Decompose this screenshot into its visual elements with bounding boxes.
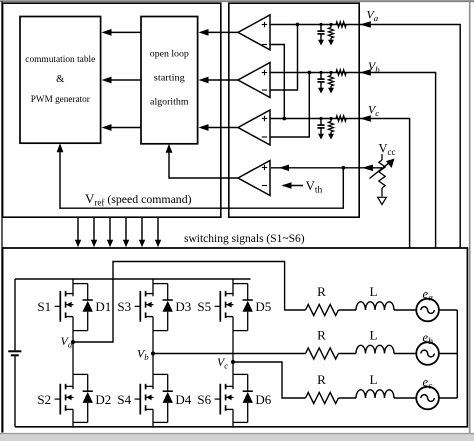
arrowhead Vb into comparator box <box>360 69 371 76</box>
wire Vb sense line <box>270 73 436 249</box>
capacitor C (phase a) <box>317 23 324 46</box>
node junction on Vb line <box>307 71 311 75</box>
label R (phase c) <box>317 372 326 387</box>
border frame bottom band <box>0 434 474 441</box>
label L (phase b) <box>370 327 378 342</box>
op-amp comparator U1 <box>238 15 270 50</box>
svg-text:D5: D5 <box>255 299 271 314</box>
wire L to source (phase a) <box>394 309 416 311</box>
inverter section box <box>3 248 468 433</box>
transistor S3 <box>135 279 154 354</box>
wire potentiometer wiper to U4 plus input <box>271 167 382 169</box>
wire L to source (phase c) <box>394 397 416 399</box>
diode D6 <box>233 374 253 422</box>
wire phase a to load <box>73 262 306 343</box>
border frame right <box>469 0 471 433</box>
svg-text:D3: D3 <box>175 299 191 314</box>
arrowhead Va into comparator box <box>360 21 371 28</box>
node junction on Va line <box>296 23 300 27</box>
label D2 <box>95 392 111 407</box>
diode D3 <box>153 284 173 331</box>
svg-text:R: R <box>317 284 326 299</box>
wire switching signal arrow 6 <box>155 217 161 247</box>
ground below potentiometer (open arrow) <box>378 197 387 204</box>
resistor R (phase c winding) <box>306 393 339 404</box>
arrowhead Vc into comparator box <box>360 115 371 122</box>
transistor S6 <box>215 362 234 427</box>
arrowhead wiper wire at box edge <box>362 165 373 172</box>
resistor R series (phase b) <box>336 70 346 76</box>
label Vth <box>306 178 323 196</box>
wire source to neutral (phase b) <box>439 353 457 355</box>
wire U3 minus to Vb line <box>270 73 309 138</box>
label D6 <box>255 392 271 407</box>
svg-text:L: L <box>370 284 378 299</box>
svg-text:S3: S3 <box>117 299 131 314</box>
svg-text:&: & <box>56 74 65 85</box>
svg-text:commutation table: commutation table <box>25 54 95 65</box>
svg-text:R: R <box>317 372 326 387</box>
resistor R shunt (phase c) <box>328 117 334 140</box>
border frame left <box>1 1 3 433</box>
svg-text:S6: S6 <box>197 392 211 407</box>
label S4 <box>117 392 131 407</box>
svg-text:algorithm: algorithm <box>150 96 189 107</box>
label & <box>56 74 65 85</box>
transistor S1 <box>55 279 74 342</box>
svg-text:R: R <box>317 327 326 342</box>
svg-text:switching signals (S1~S6): switching signals (S1~S6) <box>184 233 305 245</box>
wire open-loop to commutation 1 <box>102 29 142 36</box>
label Vc (top right) <box>368 103 379 119</box>
diode D5 <box>233 284 253 331</box>
control section box <box>3 3 221 217</box>
wire phase c to load <box>233 362 306 398</box>
label L (phase a) <box>370 284 378 299</box>
wire open-loop to commutation 2 <box>102 77 142 84</box>
label Va (top right) <box>367 8 379 24</box>
wire switching signal arrow 5 <box>139 217 145 247</box>
source eb back-EMF <box>416 342 439 365</box>
label Vb (top right) <box>368 59 380 75</box>
wire comparator 1 output to open-loop <box>199 29 239 36</box>
wire Vth input <box>283 185 303 187</box>
label Vcc <box>379 142 396 158</box>
diode D2 <box>73 374 93 422</box>
wire neutral bus <box>456 310 458 398</box>
label D5 <box>255 299 271 314</box>
label Va node <box>61 334 73 350</box>
wire U2 minus to Va line <box>270 25 298 91</box>
wire L to source (phase b) <box>394 353 416 355</box>
op-amp comparator U4 <box>238 161 270 196</box>
wire switching signal arrow 4 <box>123 217 129 247</box>
wire switching signal arrow 2 <box>91 217 97 247</box>
wire R to L (phase b) <box>338 353 356 355</box>
diode D1 <box>73 284 93 331</box>
label S6 <box>197 392 211 407</box>
svg-text:D4: D4 <box>175 392 191 407</box>
inductor L (phase b winding) <box>356 345 394 353</box>
wire Va sense line <box>270 25 460 249</box>
svg-text:S2: S2 <box>37 392 51 407</box>
resistor R series (phase c) <box>336 116 346 122</box>
node Vc phase node <box>231 360 235 364</box>
arrowhead wiper wire at U4 input <box>279 165 289 172</box>
resistor R shunt (phase a) <box>328 23 334 46</box>
op-amp comparator U3 <box>238 110 270 145</box>
label Vb node <box>137 346 149 362</box>
label L (phase c) <box>370 372 378 387</box>
svg-text:L: L <box>370 327 378 342</box>
label switching signals (S1~S6) <box>184 233 305 245</box>
block open loop starting algorithm <box>141 17 198 144</box>
svg-text:S4: S4 <box>117 392 131 407</box>
wire U1 minus to Vc line <box>270 45 284 119</box>
svg-text:S1: S1 <box>37 299 51 314</box>
label algorithm <box>150 96 189 107</box>
op-amp comparator U2 <box>238 63 270 98</box>
node Vb phase node <box>151 351 155 355</box>
svg-text:D2: D2 <box>95 392 111 407</box>
svg-text:D1: D1 <box>95 299 111 314</box>
wire source to neutral (phase a) <box>439 309 457 311</box>
label S1 <box>37 299 51 314</box>
potentiometer (speed command) with Vcc <box>370 154 395 197</box>
inductor L (phase a winding) <box>356 302 394 310</box>
label commutation table <box>25 54 95 65</box>
wire R to L (phase a) <box>338 309 356 311</box>
label ec <box>423 375 434 392</box>
wire open-loop to commutation 3 <box>102 124 142 131</box>
label D1 <box>95 299 111 314</box>
source ea back-EMF <box>416 299 439 322</box>
svg-text:S5: S5 <box>197 299 211 314</box>
diode D4 <box>153 374 173 422</box>
label S3 <box>117 299 131 314</box>
wire switching signal arrow 1 <box>75 217 81 247</box>
border frame top <box>0 0 474 2</box>
node Va phase node <box>71 340 75 344</box>
comparator section box <box>229 3 359 217</box>
resistor R (phase a winding) <box>306 305 339 316</box>
label D4 <box>175 392 191 407</box>
wire phase b to load <box>153 353 306 355</box>
node junction on Vc line <box>282 117 286 121</box>
node junction Vref tap <box>341 166 345 170</box>
transistor S4 <box>135 354 154 427</box>
wire comparator 2 output to open-loop <box>199 77 239 84</box>
wire DC top rail <box>15 278 251 280</box>
label eb <box>423 330 434 347</box>
source ec back-EMF <box>416 387 439 410</box>
capacitor C (phase c) <box>317 117 324 140</box>
transistor S5 <box>215 279 234 362</box>
arrowhead Vth into U4 minus <box>282 182 292 189</box>
capacitor C (phase b) <box>317 71 324 94</box>
block commutation table & PWM generator <box>20 17 101 144</box>
wire Vref speed command <box>57 143 344 208</box>
wire comparator 4 output to open-loop bottom <box>166 144 238 178</box>
svg-text:PWM generator: PWM generator <box>31 94 91 105</box>
label PWM generator <box>31 94 91 105</box>
battery B1 <box>8 351 21 355</box>
label ea <box>423 287 434 304</box>
svg-text:open loop: open loop <box>150 49 189 60</box>
svg-text:D6: D6 <box>255 392 271 407</box>
label starting <box>154 73 185 84</box>
wire comparator 3 output to open-loop <box>199 124 239 131</box>
wire DC bus left rail <box>14 279 16 427</box>
label S2 <box>37 392 51 407</box>
wire switching signal arrow 3 <box>107 217 113 247</box>
inductor L (phase c winding) <box>356 390 394 398</box>
resistor R series (phase a) <box>336 22 346 28</box>
resistor R shunt (phase b) <box>328 71 334 94</box>
label Vc node <box>217 355 228 371</box>
label D3 <box>175 299 191 314</box>
wire Vc sense line <box>270 119 410 249</box>
resistor R (phase b winding) <box>306 348 339 359</box>
wire source to neutral (phase c) <box>439 397 457 399</box>
label Vref (speed command) <box>85 191 192 208</box>
label open loop <box>150 49 189 60</box>
transistor S2 <box>55 342 74 427</box>
wire R to L (phase c) <box>338 397 356 399</box>
label R (phase a) <box>317 284 326 299</box>
label R (phase b) <box>317 327 326 342</box>
svg-text:starting: starting <box>154 73 185 84</box>
svg-text:L: L <box>370 372 378 387</box>
label S5 <box>197 299 211 314</box>
